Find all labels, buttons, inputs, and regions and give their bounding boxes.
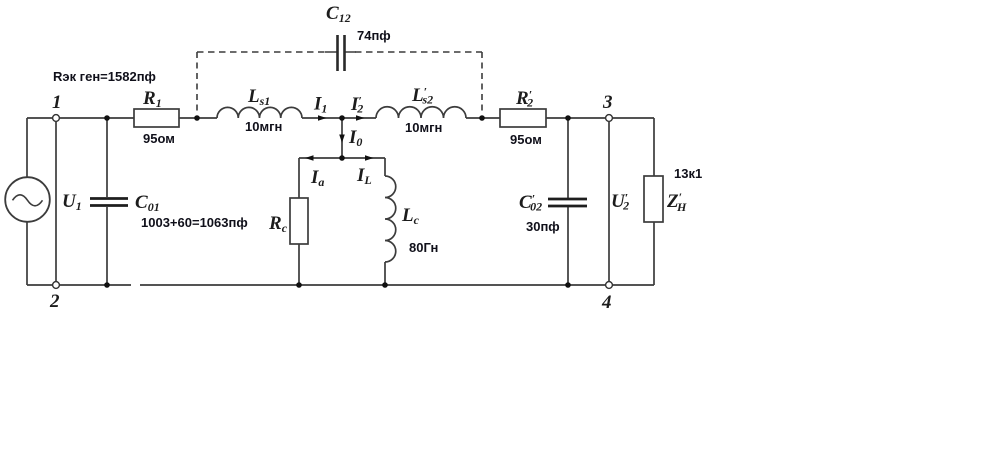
junction Lc bottom bbox=[382, 282, 388, 288]
wire R1 to Ls1 bbox=[179, 117, 217, 119]
wire T branch horizontal bbox=[299, 157, 385, 159]
wire R2 to right corner bbox=[546, 117, 654, 119]
svg-text:Ls1: Ls1 bbox=[247, 86, 270, 108]
svg-text:C′02: C′02 bbox=[519, 192, 542, 214]
svg-text:L′s2: L′s2 bbox=[411, 85, 433, 107]
node 3 terminal bbox=[606, 115, 613, 122]
resistor ZH' bbox=[644, 176, 663, 222]
junction at C02 top bbox=[565, 115, 571, 121]
svg-text:Ia: Ia bbox=[310, 167, 324, 189]
svg-text:IL: IL bbox=[356, 165, 372, 187]
svg-text:Lc: Lc bbox=[401, 205, 420, 227]
svg-text:4: 4 bbox=[601, 292, 612, 313]
svg-text:80Гн: 80Гн bbox=[409, 240, 438, 255]
wire port 1-2 vertical bbox=[55, 122, 57, 281]
capacitor C01 bbox=[90, 199, 128, 206]
arrow I0 bbox=[339, 135, 345, 143]
junction center node bbox=[339, 115, 345, 121]
svg-text:R′2: R′2 bbox=[515, 88, 533, 110]
wire Rc branch vertical bbox=[298, 158, 300, 285]
svg-text:I1: I1 bbox=[313, 94, 327, 116]
svg-text:2: 2 bbox=[49, 291, 60, 312]
junction Rc bottom bbox=[296, 282, 302, 288]
resistor R1 bbox=[134, 109, 179, 127]
svg-text:Rэк ген=1582пф: Rэк ген=1582пф bbox=[53, 69, 156, 84]
svg-text:U′2: U′2 bbox=[611, 191, 629, 213]
wire C01 branch vertical bbox=[106, 118, 108, 285]
wire C02 branch vertical bbox=[567, 118, 569, 285]
svg-text:10мгн: 10мгн bbox=[405, 120, 442, 135]
svg-text:C01: C01 bbox=[135, 192, 160, 214]
junction at C01 top bbox=[104, 115, 110, 121]
resistor Rc bbox=[290, 198, 308, 244]
wire dashed top horizontal bbox=[197, 51, 482, 53]
svg-text:U1: U1 bbox=[62, 191, 82, 213]
wire bottom rail bbox=[27, 284, 654, 286]
junction C02 bottom bbox=[565, 282, 571, 288]
inductor Ls1 bbox=[217, 107, 302, 118]
junction C01 bottom bbox=[104, 282, 110, 288]
wire dashed vertical right bbox=[481, 52, 483, 114]
svg-text:Rc: Rc bbox=[268, 213, 288, 235]
svg-text:C12: C12 bbox=[326, 3, 351, 25]
inductor Lc bbox=[385, 176, 396, 262]
svg-text:3: 3 bbox=[602, 92, 613, 113]
svg-text:Z′H: Z′H bbox=[666, 190, 687, 214]
inductor Ls2' bbox=[376, 107, 466, 118]
resistor R2' bbox=[500, 109, 546, 127]
wire port 3-4 vertical bbox=[608, 122, 610, 281]
wire source branch vertical bbox=[26, 118, 28, 285]
junction left dashed tap bbox=[194, 115, 200, 121]
svg-text:95ом: 95ом bbox=[510, 132, 542, 147]
arrow IL bbox=[365, 155, 374, 161]
svg-text:74пф: 74пф bbox=[357, 28, 391, 43]
wire C12 stubs bbox=[325, 51, 356, 53]
wire Ls1 to Ls2 center bbox=[302, 117, 376, 119]
capacitor C02' bbox=[548, 199, 587, 206]
svg-text:10мгн: 10мгн bbox=[245, 119, 282, 134]
arrow I1 bbox=[318, 115, 327, 121]
svg-text:I0: I0 bbox=[348, 127, 362, 149]
node 2 terminal bbox=[53, 282, 60, 289]
node 4 terminal bbox=[606, 282, 613, 289]
wire Ls2 to R2 bbox=[466, 117, 500, 119]
svg-text:30пф: 30пф bbox=[526, 219, 560, 234]
ac source G1 bbox=[5, 177, 50, 222]
svg-text:95ом: 95ом bbox=[143, 131, 175, 146]
svg-text:R1: R1 bbox=[142, 88, 162, 110]
svg-text:13к1: 13к1 bbox=[674, 166, 702, 181]
svg-text:I′2: I′2 bbox=[350, 94, 363, 116]
junction T split bbox=[339, 155, 345, 161]
node 1 terminal bbox=[53, 115, 60, 122]
wire dashed vertical left bbox=[196, 52, 198, 114]
wire I0 branch vertical bbox=[341, 118, 343, 158]
wire Lc branch vertical bbox=[384, 158, 386, 285]
junction right dashed tap bbox=[479, 115, 485, 121]
svg-text:1003+60=1063пф: 1003+60=1063пф bbox=[141, 215, 248, 230]
wire top rail left bbox=[27, 117, 134, 119]
svg-text:1: 1 bbox=[52, 92, 62, 113]
arrow Ia bbox=[305, 155, 314, 161]
capacitor C12 bbox=[338, 35, 345, 71]
wire ZH branch vertical bbox=[653, 118, 655, 285]
arrow I2' bbox=[356, 115, 365, 121]
